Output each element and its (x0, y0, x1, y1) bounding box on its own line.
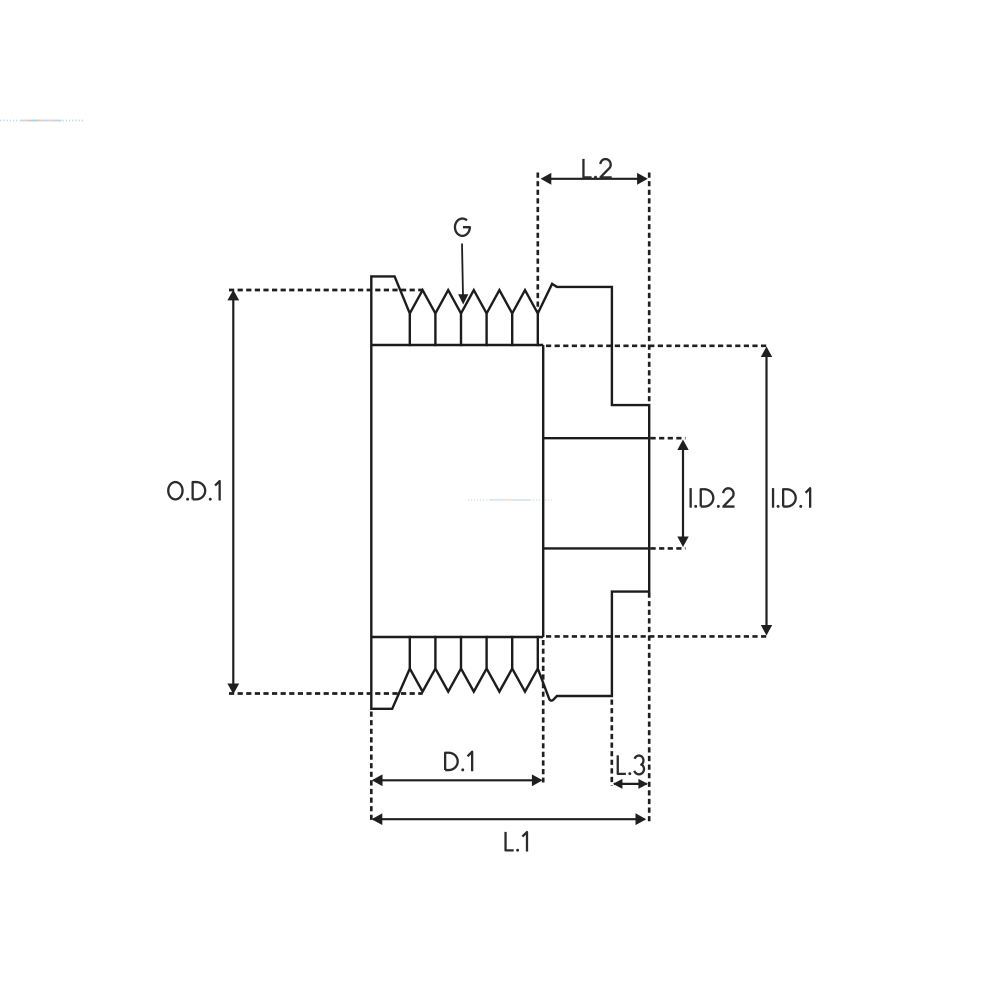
dimension line I.D.1 (765, 349, 767, 633)
pulley outer profile outline (371, 276, 649, 708)
label D.1 (445, 753, 458, 770)
bore lower line I.D.2 (543, 547, 649, 549)
leader arrow G (462, 244, 463, 297)
dimension line L.3 (614, 783, 647, 785)
label L.1 (506, 832, 514, 850)
label O.D.1 (168, 482, 182, 499)
label L.3 (618, 755, 626, 773)
extension line D.1/L.1 left (370, 712, 373, 822)
bore upper line I.D.2 (543, 437, 649, 439)
dimension line L.2 (543, 178, 646, 180)
bottom rim line of pulley body (371, 636, 543, 638)
extension line L.1 right (648, 593, 651, 823)
label I.D.1 (772, 488, 774, 508)
pulley body right face (542, 345, 544, 637)
watermark dotted line top-left (0, 120, 83, 122)
extension line I.D.2 top (651, 437, 686, 440)
extension line I.D.1 top (546, 344, 770, 347)
label G (455, 219, 470, 236)
label I.D.2 (690, 488, 692, 508)
extension line I.D.1 bottom (546, 635, 770, 638)
bottom groove valley stems (410, 636, 538, 669)
label L.2 (583, 159, 591, 177)
extension line L.2 left (536, 173, 539, 312)
dimension line D.1 (374, 779, 541, 781)
dimension line I.D.2 (682, 442, 684, 545)
extension line L.2 right (648, 173, 651, 405)
watermark dotted axis line center (468, 499, 553, 501)
extension line O.D.1 top (229, 289, 423, 292)
extension line I.D.2 bottom (651, 547, 686, 550)
dimension line L.1 (373, 818, 645, 820)
extension line O.D.1 bottom (229, 692, 423, 695)
extension line D.1 right (542, 640, 545, 783)
top groove valley stems (410, 313, 538, 346)
extension line L.3 left (610, 700, 613, 787)
dimension line O.D.1 (232, 292, 234, 692)
top rim line of pulley body (371, 344, 543, 346)
